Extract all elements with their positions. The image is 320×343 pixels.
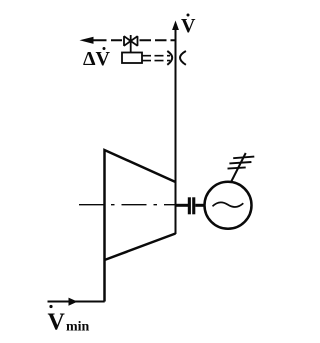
arrow up on steam pipe xyxy=(172,21,179,31)
actuator box xyxy=(122,53,142,64)
generator tilde (~) xyxy=(213,202,244,207)
turbine (trapezoid) xyxy=(105,150,176,302)
valve (bypass control valve) xyxy=(124,36,138,46)
svg-text:V: V xyxy=(48,310,66,336)
arrow right on min flow wire xyxy=(69,298,78,306)
orifice (flow measurement) on pipe xyxy=(167,51,172,65)
grid bus stroke 2 xyxy=(229,162,251,163)
shaft turbine to coupling xyxy=(176,204,189,207)
generator G (circle) xyxy=(205,182,252,229)
svg-text:ΔV: ΔV xyxy=(83,48,111,70)
shaft coupling to generator xyxy=(195,204,205,207)
wire: main steam pipe (vertical) xyxy=(175,27,177,234)
grid connection lead (diagonal) xyxy=(231,153,245,182)
dashed control link (actuator to orifice), double line xyxy=(142,55,170,57)
grid bus stroke 3 xyxy=(228,167,246,168)
wire: dashed bypass line with left arrow xyxy=(93,39,123,41)
svg-text:V: V xyxy=(181,15,196,37)
svg-text:min: min xyxy=(66,320,90,335)
shaft centerline (dash-dot) xyxy=(79,204,176,206)
wire: minimum flow inlet (horizontal) xyxy=(48,301,105,303)
grid bus stroke 1 xyxy=(233,157,254,159)
coupling (two bars) xyxy=(188,197,191,214)
valve stem xyxy=(130,35,132,53)
